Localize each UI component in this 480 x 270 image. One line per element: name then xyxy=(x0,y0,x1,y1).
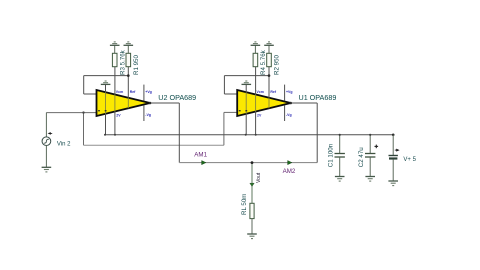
svg-text:R1 950: R1 950 xyxy=(133,54,140,75)
svg-text:R3 5.76k: R3 5.76k xyxy=(119,49,126,75)
svg-text:U2 OPA689: U2 OPA689 xyxy=(158,93,196,102)
svg-text:Vin 2: Vin 2 xyxy=(57,141,71,147)
svg-text:Vcm: Vcm xyxy=(257,90,264,94)
svg-text:RL 50m: RL 50m xyxy=(241,194,248,215)
svg-text:Vcm: Vcm xyxy=(116,90,123,94)
svg-text:+Vg: +Vg xyxy=(286,90,293,94)
svg-text:R4 5.76k: R4 5.76k xyxy=(260,49,267,75)
svg-text:U1 OPA689: U1 OPA689 xyxy=(299,93,337,102)
svg-text:V+ 5: V+ 5 xyxy=(403,157,416,163)
svg-text:2V: 2V xyxy=(257,114,262,118)
svg-text:C2 47u: C2 47u xyxy=(358,147,365,168)
svg-text:R2 950: R2 950 xyxy=(274,54,281,75)
svg-text:Ref: Ref xyxy=(270,90,276,94)
svg-text:-Vg: -Vg xyxy=(145,113,151,117)
svg-text:C1 100n: C1 100n xyxy=(328,143,335,167)
svg-text:AM1: AM1 xyxy=(194,152,207,159)
svg-text:Vout: Vout xyxy=(256,172,262,183)
svg-text:AM2: AM2 xyxy=(283,168,296,175)
svg-text:2V: 2V xyxy=(116,114,121,118)
svg-text:-Vg: -Vg xyxy=(286,113,292,117)
svg-text:Ref: Ref xyxy=(130,90,136,94)
svg-text:+Vg: +Vg xyxy=(145,90,152,94)
